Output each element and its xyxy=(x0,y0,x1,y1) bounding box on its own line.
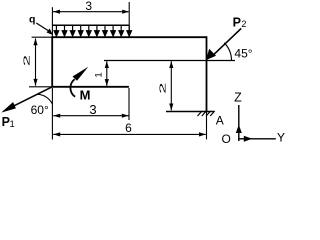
extension line above load right end xyxy=(128,2,130,37)
extension line left of bottom tab xyxy=(29,86,52,88)
dimension 6 (bottom) xyxy=(53,121,206,137)
svg-text:A: A xyxy=(216,114,224,128)
extension line below left corner xyxy=(51,88,53,140)
svg-text:Y: Y xyxy=(277,131,285,145)
distributed load q line xyxy=(53,24,129,26)
svg-text:6: 6 xyxy=(125,121,132,135)
moment M arc xyxy=(70,67,88,97)
45 degree arc xyxy=(224,43,231,61)
ground line at support A xyxy=(166,111,214,113)
frame right edge xyxy=(206,36,208,111)
force P1 xyxy=(1,87,52,113)
force P2 xyxy=(206,28,241,60)
svg-text:M: M xyxy=(80,87,91,102)
reference line at P2 level xyxy=(104,60,235,62)
extension line below tab end xyxy=(128,88,130,120)
extension line below support A xyxy=(206,112,208,140)
dimension 1 (inner) xyxy=(94,61,109,86)
label P2 xyxy=(233,15,247,29)
svg-text:45°: 45° xyxy=(234,46,252,60)
svg-text:q: q xyxy=(29,13,35,25)
svg-text:1: 1 xyxy=(10,119,15,129)
svg-text:2: 2 xyxy=(22,55,31,66)
distributed load arrows xyxy=(54,25,131,36)
dimension 2 (left) xyxy=(22,38,37,86)
svg-text:P: P xyxy=(233,15,241,29)
svg-text:3: 3 xyxy=(85,0,92,13)
60 degree arc xyxy=(37,94,52,104)
frame bottom tab xyxy=(52,86,129,88)
dimension 3 (bottom) xyxy=(53,102,129,118)
svg-text:1: 1 xyxy=(94,72,105,77)
hatching at support A xyxy=(198,111,215,116)
axis Y xyxy=(238,136,276,142)
svg-text:O: O xyxy=(222,132,231,146)
svg-text:3: 3 xyxy=(89,102,96,117)
svg-text:60°: 60° xyxy=(31,103,49,117)
extension line above left corner xyxy=(51,7,53,37)
svg-text:Z: Z xyxy=(234,90,242,104)
q leader line xyxy=(36,23,53,35)
label P1 xyxy=(2,115,15,129)
frame left edge xyxy=(51,36,53,87)
axis Z xyxy=(236,105,242,141)
svg-text:2: 2 xyxy=(241,19,246,29)
dimension 2 (inner right) xyxy=(158,61,173,110)
svg-text:2: 2 xyxy=(158,83,168,94)
extension line left of top edge xyxy=(32,36,53,38)
frame top edge xyxy=(52,36,206,38)
dimension 3 (top) xyxy=(53,0,129,14)
